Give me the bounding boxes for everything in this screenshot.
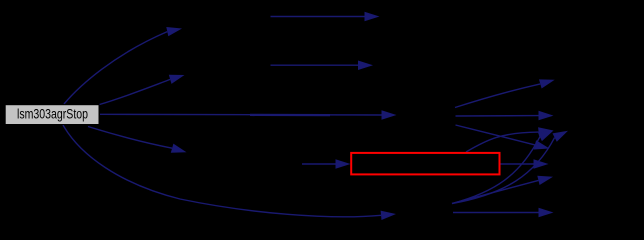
edge H2: node2B -> node M5	[271, 64, 359, 66]
edge RBin: node2C -> red node	[302, 163, 336, 165]
edge E2: lsm303agrStop -> node2B	[100, 79, 171, 104]
edge c2: M3 -> R4b (steeper curve)	[452, 138, 555, 204]
edge B: M1 -> R2	[456, 115, 539, 117]
thicker overlap stretch on edge E3	[250, 114, 330, 116]
svg-text:lsm303agrStop: lsm303agrStop	[17, 106, 88, 121]
edge H1: node2A -> node M4	[271, 16, 365, 18]
edge E3: lsm303agrStop -> node M1	[100, 113, 382, 116]
edge C: M1 -> R3	[456, 125, 535, 145]
edge E5: lsm303agrStop -> node M3	[63, 125, 381, 217]
red highlighted node (truncated callee)	[351, 153, 499, 175]
edge r2: red node -> R4 (leaves top edge)	[466, 132, 539, 152]
edge r1: red node -> R3	[501, 163, 534, 165]
edge b: M3 -> R3	[452, 180, 538, 203]
edge A: M1 -> R1	[455, 84, 540, 108]
edge E4: lsm303agrStop -> node2C	[88, 127, 172, 149]
edge c1: M3 -> R4 (steep curve)	[452, 137, 540, 204]
edge a: M3 -> R5	[453, 212, 539, 214]
node lsm303agrStop (gray current-function box)	[5, 105, 99, 125]
edge E1: lsm303agrStop -> node2A	[64, 32, 167, 104]
